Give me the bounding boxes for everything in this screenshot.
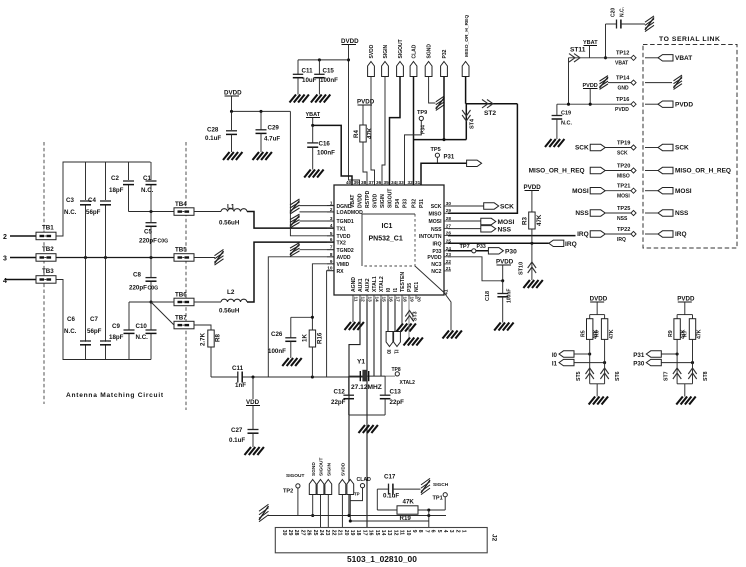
svg-text:DVDD: DVDD [341, 38, 359, 45]
flag MISO_OR_H_REQ top [462, 62, 469, 77]
svg-text:56pF: 56pF [86, 209, 101, 216]
svg-text:TP12: TP12 [616, 51, 629, 57]
wire C26 to ground [290, 341, 292, 358]
ground C28 [223, 152, 230, 160]
wire input 2 to TB1 [10, 235, 36, 237]
svg-text:TP7: TP7 [460, 244, 470, 250]
wire VBAT test row [569, 57, 632, 59]
svg-text:R3: R3 [522, 217, 529, 225]
svg-text:XTAL2: XTAL2 [400, 380, 416, 386]
wire VBAT vertical to PVDD row [568, 58, 570, 104]
svg-text:23: 23 [446, 252, 452, 257]
wire DVDD flag down [231, 96, 233, 111]
svg-text:P30: P30 [633, 361, 645, 368]
svg-text:31: 31 [415, 180, 421, 185]
wire C28 to ground [231, 134, 233, 152]
wire NSS pin 27 [448, 228, 481, 230]
flag P30 at pin 24 [488, 248, 503, 254]
wire R19 to TP1 [418, 509, 445, 511]
wire C27 to ground [252, 433, 254, 447]
capacitor C9 column [128, 302, 130, 330]
svg-text:TB5: TB5 [175, 247, 187, 254]
wire C2 to TB4 [129, 211, 175, 213]
svg-text:SIGIN: SIGIN [380, 194, 386, 208]
svg-text:8: 8 [330, 252, 333, 257]
wire PVDD to R4 [362, 105, 364, 125]
svg-text:C11: C11 [302, 68, 314, 75]
wire AVDD pin 8 down [268, 257, 334, 377]
svg-text:SIGOUT: SIGOUT [319, 458, 325, 476]
testpoint TP5 P31 [435, 153, 439, 157]
testpoint TP9 P34 [419, 116, 423, 120]
svg-text:AUX2: AUX2 [365, 278, 371, 292]
wire DGND pin 1 stub [300, 205, 335, 207]
svg-text:R5: R5 [580, 330, 586, 337]
svg-text:SIGOUT: SIGOUT [286, 473, 304, 479]
svg-text:ST6: ST6 [615, 371, 621, 381]
capacitor C29 4.7uF [260, 111, 262, 129]
svg-text:40: 40 [346, 180, 352, 185]
svg-text:P34: P34 [395, 199, 401, 208]
svg-text:C29: C29 [268, 125, 280, 132]
node R3 [530, 242, 533, 245]
svg-text:Y1: Y1 [357, 359, 365, 366]
svg-text:0.1uF: 0.1uF [229, 437, 245, 444]
svg-text:47K: 47K [697, 329, 703, 339]
capacitor C8 [146, 277, 157, 279]
wire TGND1 pin 3 stub [300, 220, 335, 222]
flag I0 down [386, 332, 393, 347]
svg-text:2.7K: 2.7K [200, 332, 207, 346]
ground ST10 [523, 280, 530, 288]
svg-text:MOSI: MOSI [428, 219, 442, 225]
svg-text:TESTEN: TESTEN [400, 272, 406, 292]
shield pad C17 [421, 478, 430, 494]
wire CLAD to pin 32 [413, 77, 415, 186]
connector TB7 [174, 321, 194, 329]
svg-text:4: 4 [330, 223, 333, 228]
svg-text:AVDD: AVDD [337, 255, 351, 261]
wire crystal ground rail [349, 414, 385, 416]
svg-text:TP: TP [354, 492, 360, 497]
svg-text:33: 33 [398, 180, 404, 185]
svg-text:RX: RX [337, 269, 345, 275]
wire P30 to R7 [661, 362, 692, 364]
svg-text:100nF: 100nF [507, 289, 513, 303]
capacitor C3 [80, 200, 91, 202]
svg-text:MOSI: MOSI [675, 188, 692, 195]
wire PVDD box row [645, 103, 658, 105]
svg-text:TO SERIAL LINK: TO SERIAL LINK [659, 36, 720, 43]
wire pad 41 to ground [444, 293, 451, 331]
wire AUX1 pin 12 down [349, 299, 360, 516]
shield pad pin 3 [290, 214, 300, 228]
wire C19 ground [556, 119, 558, 139]
svg-text:7: 7 [423, 530, 429, 533]
svg-text:11: 11 [353, 297, 358, 302]
wire R8 to C11 node [210, 347, 212, 377]
ground C19 [545, 139, 552, 147]
wire C17 to R19 [376, 489, 378, 510]
svg-text:18pF: 18pF [109, 187, 124, 194]
wire R5 lower [589, 339, 591, 383]
svg-text:29: 29 [287, 530, 293, 536]
svg-text:PVDD: PVDD [615, 107, 629, 113]
testpoint TP16 diamond [631, 102, 636, 107]
svg-text:19: 19 [349, 530, 355, 536]
capacitor C28 0.1uF [231, 111, 233, 130]
node C4 tap [104, 256, 107, 259]
wire L2 to TX2 pin 6 [247, 242, 334, 302]
wire C13 down [384, 399, 386, 415]
svg-text:P30: P30 [505, 249, 517, 256]
svg-text:5: 5 [330, 231, 333, 236]
wire PVDD stem [589, 89, 591, 105]
svg-text:RSTPD: RSTPD [365, 190, 371, 208]
svg-text:0.1uF: 0.1uF [205, 135, 221, 142]
capacitor C27 0.1uF [248, 429, 259, 431]
svg-text:TP21: TP21 [617, 184, 630, 190]
resistor R8 2.7K [208, 330, 214, 347]
svg-text:Antenna Matching Circuit: Antenna Matching Circuit [66, 392, 164, 399]
shield pad SGND [436, 96, 445, 110]
svg-text:SIGOUT: SIGOUT [388, 188, 394, 208]
connector TB3 [36, 276, 56, 284]
wire SVDD to pin 37 [371, 77, 375, 186]
stitch ST5 [586, 373, 594, 379]
wire input 3 to TB2 [10, 257, 36, 259]
svg-text:ST3: ST3 [413, 311, 419, 321]
svg-text:10: 10 [327, 266, 333, 271]
svg-text:4: 4 [3, 278, 7, 285]
svg-text:27.12MHZ: 27.12MHZ [351, 384, 382, 391]
svg-text:32: 32 [407, 180, 413, 185]
svg-text:SGND: SGND [311, 462, 317, 476]
stitch ST7 [673, 373, 681, 379]
wire DVDD pullup to ground [590, 383, 605, 385]
shield pad bottom rail [259, 504, 269, 522]
wire RX pin 10 down [327, 271, 334, 377]
shield pad pins 1-2 [290, 199, 300, 214]
wire SIGIN to pin 36 [382, 77, 385, 186]
svg-text:13: 13 [386, 530, 392, 536]
svg-text:P32: P32 [412, 199, 418, 208]
wire PVDD pin 23 to C18 [448, 257, 503, 281]
stitch ST6 [600, 373, 608, 379]
wire I1 pin 17 [394, 299, 396, 332]
wire R7 lower [692, 339, 694, 383]
wire SCK pin 30 [448, 205, 484, 207]
wire SVDD stem [341, 495, 343, 528]
connector TB2 [36, 254, 56, 262]
svg-text:DVDD: DVDD [358, 193, 364, 208]
svg-text:11: 11 [399, 530, 405, 536]
svg-text:P32: P32 [442, 49, 448, 58]
svg-text:23: 23 [324, 530, 330, 536]
svg-text:TB4: TB4 [175, 201, 187, 208]
svg-text:TB2: TB2 [42, 246, 54, 253]
wire I0 to R5 [574, 353, 590, 355]
capacitor C7 [100, 340, 111, 342]
svg-text:TGND1: TGND1 [337, 219, 354, 225]
wire input 4 to TB3 [5, 279, 36, 281]
inductor L2 [194, 301, 221, 303]
svg-text:2: 2 [330, 207, 333, 212]
svg-text:28: 28 [446, 216, 452, 221]
svg-text:C28: C28 [207, 127, 219, 134]
wire IRQ pin 25 [448, 242, 549, 244]
svg-text:IC1: IC1 [382, 223, 393, 230]
capacitor C2 column [128, 162, 130, 180]
wire C29 to ground [260, 133, 262, 152]
wire P32 net horizontal [414, 139, 467, 141]
svg-text:C7: C7 [90, 316, 98, 323]
svg-text:15: 15 [381, 297, 386, 303]
node P32 flag junction [442, 138, 445, 141]
svg-text:C5: C5 [144, 229, 152, 236]
svg-text:N.C.: N.C. [141, 187, 154, 194]
wire diagonal junction to TB7 [151, 302, 174, 325]
testpoint TP2 [296, 484, 300, 488]
svg-text:P35: P35 [407, 283, 413, 292]
resistor R4 47K [360, 125, 366, 142]
svg-text:1K: 1K [302, 334, 309, 342]
svg-text:R6: R6 [594, 330, 600, 337]
ground C26 [282, 358, 289, 366]
flag SVDD bottom [339, 480, 346, 495]
svg-text:MOSI: MOSI [617, 194, 630, 200]
svg-text:SIGCH: SIGCH [433, 482, 449, 488]
wire junction to TB6 [151, 301, 174, 303]
svg-text:INTOUTN: INTOUTN [419, 234, 442, 240]
svg-text:TP2: TP2 [283, 489, 293, 495]
svg-text:ST5: ST5 [576, 371, 582, 381]
flag SGND top [425, 62, 432, 77]
node C20 tap [604, 56, 607, 59]
svg-text:N.C.: N.C. [619, 6, 625, 17]
capacitor C15 100nF [318, 60, 320, 74]
node VDD branch [251, 375, 254, 378]
flag SIGIN bottom [325, 480, 332, 495]
svg-text:NC3: NC3 [431, 262, 441, 268]
shield pad pin 7 [290, 243, 300, 257]
svg-text:SCK: SCK [431, 204, 442, 210]
antenna matching circuit dashed boundary left [43, 142, 45, 404]
svg-text:PN532_C1: PN532_C1 [369, 236, 403, 243]
svg-text:C13: C13 [390, 389, 402, 396]
wire R9 lower [676, 339, 678, 383]
node C28 [230, 110, 233, 113]
svg-text:21: 21 [337, 530, 343, 536]
connector TB1 [36, 232, 56, 240]
capacitor C11 10uF [297, 60, 299, 74]
serial link dashed box [643, 45, 737, 249]
flag SCK [484, 203, 499, 209]
wire MISO flag down [465, 77, 467, 104]
svg-text:12: 12 [360, 297, 365, 303]
capacitor C6 [80, 340, 91, 342]
crystal Y1 27.12MHZ [359, 371, 361, 381]
connector TB6 [174, 298, 194, 306]
wire PVDD test row [557, 103, 631, 105]
svg-text:100nF: 100nF [317, 150, 335, 157]
svg-text:19: 19 [409, 297, 414, 303]
svg-text:SIGIN: SIGIN [326, 462, 332, 476]
wire DVDD to resistors [596, 302, 598, 315]
flag I1 down [394, 332, 401, 347]
svg-text:36: 36 [376, 180, 382, 185]
flag CLAD top [410, 62, 417, 77]
svg-text:SIGIN: SIGIN [383, 44, 389, 58]
wire INTOUTN pin 26 to IRQ flag row [448, 235, 576, 237]
wire P33 pin 24 row [448, 250, 488, 252]
svg-text:21: 21 [446, 266, 452, 271]
capacitor C10 [146, 329, 157, 331]
capacitor C1 [146, 180, 157, 182]
ground PVDD pullup [676, 397, 683, 405]
svg-text:C10: C10 [136, 323, 148, 330]
svg-text:I1: I1 [393, 288, 399, 292]
wire TP3 stem [350, 488, 362, 501]
shield pad C20 [645, 16, 654, 32]
svg-text:N.C.: N.C. [136, 334, 149, 341]
svg-text:C1: C1 [143, 175, 151, 182]
svg-text:MISO: MISO [617, 174, 630, 180]
svg-text:NSS: NSS [431, 227, 442, 233]
node DVDD C15 [347, 58, 350, 61]
wire P35 pin 19 [408, 299, 410, 338]
wire R6 lower [604, 339, 606, 383]
flag IRQ near chip [549, 240, 564, 246]
svg-text:L2: L2 [227, 289, 235, 296]
svg-text:R4: R4 [353, 130, 360, 138]
node C15 [318, 58, 321, 61]
svg-text:P33: P33 [477, 244, 486, 250]
svg-text:47K: 47K [403, 499, 415, 506]
svg-text:1: 1 [330, 201, 333, 206]
ground AGND [345, 322, 352, 330]
svg-text:22: 22 [446, 259, 452, 264]
wire R4 to RSTPD pin 38 [363, 142, 367, 185]
resistor R6 47K [601, 319, 607, 340]
svg-text:C3: C3 [66, 197, 74, 204]
svg-text:AGND: AGND [351, 277, 357, 292]
svg-text:VBAT: VBAT [675, 55, 692, 62]
connector TB4 [174, 208, 194, 216]
wire VMID pin 9 to R16 [312, 264, 334, 330]
svg-text:SGND: SGND [427, 44, 433, 59]
svg-text:ST11: ST11 [570, 47, 586, 54]
svg-text:DVDD: DVDD [590, 296, 608, 303]
svg-text:30: 30 [446, 201, 452, 206]
svg-text:TX2: TX2 [337, 240, 347, 246]
wire L1 to TX1 pin 4 [247, 212, 334, 229]
svg-text:TP16: TP16 [616, 97, 629, 103]
svg-text:220pF: 220pF [129, 285, 147, 292]
flag P31 [467, 160, 482, 166]
svg-text:15: 15 [374, 530, 380, 536]
svg-text:25: 25 [312, 530, 318, 536]
svg-text:30: 30 [281, 530, 287, 536]
svg-text:C8: C8 [133, 272, 141, 279]
svg-text:P31: P31 [633, 352, 645, 359]
wire SGND to shield [429, 77, 436, 104]
svg-text:TP9: TP9 [417, 110, 427, 116]
svg-text:VBAT: VBAT [350, 194, 356, 208]
IC1 exposed pad 41 diagonal [415, 266, 444, 293]
wire C16 ground [312, 147, 314, 169]
svg-text:C16: C16 [319, 141, 331, 148]
wire P31 pin 31 to flag [421, 163, 467, 185]
svg-text:26: 26 [306, 530, 312, 536]
wire ST4 branch [465, 104, 467, 140]
svg-text:AUX1: AUX1 [358, 278, 364, 292]
svg-text:NC2: NC2 [431, 269, 441, 275]
node R16 column [311, 375, 314, 378]
svg-text:SVDD: SVDD [373, 194, 379, 208]
svg-text:ST2: ST2 [484, 110, 496, 117]
ground crystal [359, 425, 366, 433]
testpoint TP14 diamond [631, 80, 636, 85]
svg-text:XTAL2: XTAL2 [379, 276, 385, 292]
svg-text:41: 41 [444, 289, 450, 295]
capacitor C16 100nF [312, 125, 314, 142]
svg-text:C4: C4 [88, 197, 96, 204]
svg-text:3: 3 [448, 530, 454, 533]
svg-text:6: 6 [330, 237, 333, 242]
svg-text:IRQ: IRQ [617, 237, 626, 243]
svg-text:SVDD: SVDD [341, 462, 347, 476]
svg-text:SCK: SCK [675, 145, 689, 152]
wire MISO to ST2 [466, 103, 518, 105]
svg-text:P33: P33 [403, 199, 409, 208]
wire C15 ground [318, 78, 320, 95]
capacitor C20 N.C. [616, 20, 618, 29]
svg-text:XTAL1: XTAL1 [372, 276, 378, 292]
wire SIGOUT to pin 35 [390, 77, 401, 186]
svg-text:34: 34 [391, 180, 397, 185]
svg-text:ST7: ST7 [664, 371, 670, 381]
svg-text:3: 3 [3, 256, 7, 263]
node AUX1 rail [347, 514, 350, 517]
svg-text:IRQ: IRQ [577, 231, 589, 238]
svg-text:12: 12 [392, 530, 398, 536]
wire P31 to R9 [661, 353, 677, 355]
svg-text:TP14: TP14 [616, 76, 630, 82]
svg-text:PVDD: PVDD [357, 99, 375, 106]
svg-text:NSS: NSS [575, 210, 589, 217]
stitch ST4 [462, 110, 470, 116]
svg-text:C0G: C0G [158, 239, 169, 245]
wire CLAD stem [349, 495, 351, 522]
svg-text:2: 2 [454, 530, 460, 533]
svg-text:IRQ: IRQ [675, 231, 687, 238]
svg-text:SIGOUT: SIGOUT [398, 39, 404, 58]
testpoint CLAD TP3 [360, 484, 364, 488]
flag MOSI [481, 218, 496, 224]
resistor R9 47K [674, 319, 680, 340]
svg-text:5: 5 [436, 530, 442, 533]
svg-text:R16: R16 [317, 332, 324, 344]
wire RX node horizontal [211, 376, 238, 378]
capacitor C18 100nF [502, 281, 504, 293]
svg-text:8: 8 [417, 530, 423, 533]
capacitor C9 [124, 329, 135, 331]
wire R3 to IRQ row [531, 229, 533, 243]
flag P32 top [441, 62, 448, 77]
stitch ST3 [405, 316, 413, 322]
svg-text:SCK: SCK [500, 204, 514, 211]
